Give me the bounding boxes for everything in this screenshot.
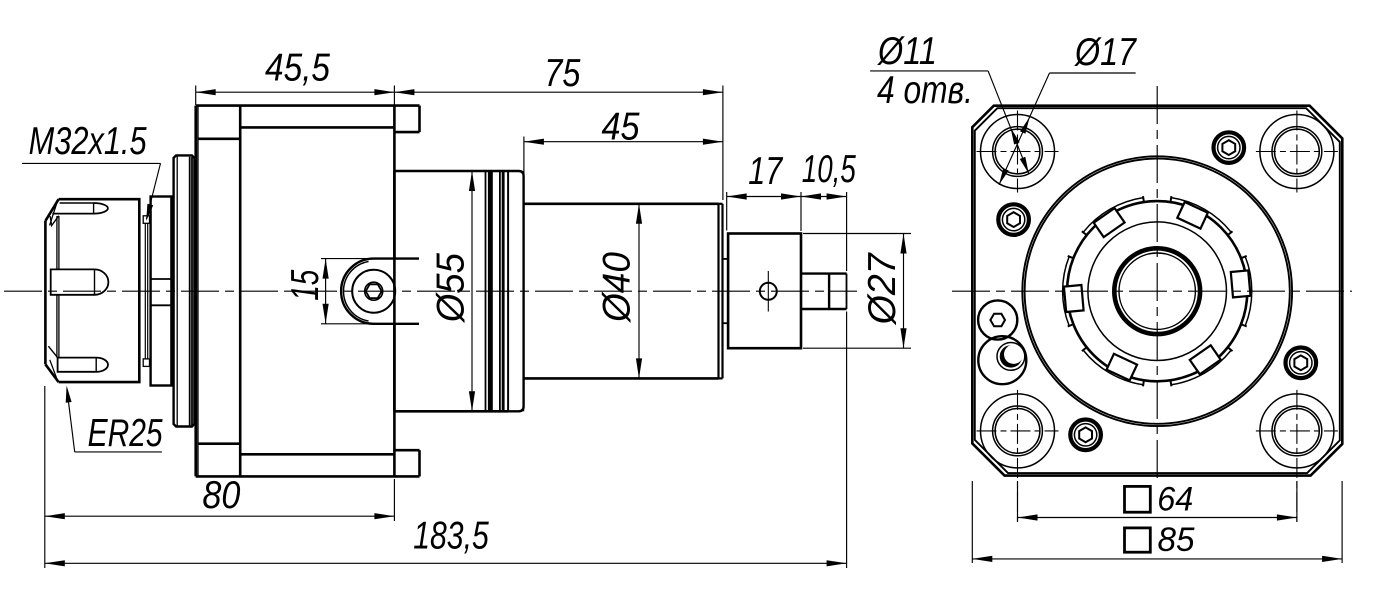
svg-text:ER25: ER25 (88, 412, 163, 455)
svg-text:Ø27: Ø27 (861, 252, 904, 326)
svg-text:80: 80 (202, 474, 240, 517)
svg-text:45,5: 45,5 (265, 47, 330, 90)
svg-text:Ø40: Ø40 (596, 252, 639, 324)
svg-text:Ø55: Ø55 (430, 253, 473, 324)
svg-text:10,5: 10,5 (802, 148, 856, 191)
svg-text:64: 64 (1157, 481, 1193, 519)
svg-text:183,5: 183,5 (413, 515, 489, 558)
svg-text:75: 75 (544, 52, 580, 95)
svg-text:15: 15 (284, 270, 327, 301)
svg-text:Ø17: Ø17 (1073, 31, 1137, 74)
svg-text:4 оmв.: 4 оmв. (877, 69, 973, 112)
svg-text:M32x1.5: M32x1.5 (29, 120, 147, 163)
svg-text:17: 17 (748, 150, 783, 193)
svg-text:Ø11: Ø11 (876, 30, 937, 73)
svg-text:85: 85 (1158, 521, 1195, 559)
svg-text:45: 45 (602, 106, 640, 149)
